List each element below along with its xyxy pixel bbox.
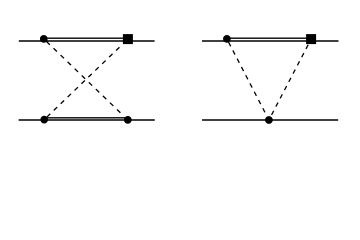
vertex dot: left diagram bottom-left [40, 116, 48, 124]
vertex square: left diagram top-right [123, 34, 133, 44]
vertex dot: left diagram top-left [40, 35, 48, 43]
dashed pion propagator: right diagram, square to bottom dot [272, 45, 309, 115]
vertex dot: left diagram bottom-right [124, 116, 132, 124]
wire: left diagram bottom nucleon line [19, 119, 155, 121]
wire: right diagram top nucleon line [202, 40, 339, 42]
vertex square: right diagram top-right [306, 34, 316, 44]
wire: left diagram bottom double-line (delta) companion segment [44, 117, 128, 119]
wire: left diagram top nucleon line [19, 40, 155, 42]
dashed pion propagator: left diagram, top-right square to bottom-left dot [47, 47, 120, 117]
wire: left diagram top double-line (delta) companion segment [44, 37, 128, 39]
vertex dot: right diagram top-left [223, 35, 231, 43]
wire: right diagram top double-line (delta) companion segment [227, 37, 311, 39]
vertex dot: right diagram bottom-center [265, 116, 273, 124]
wire: right diagram bottom nucleon line [202, 119, 338, 121]
dashed pion propagator: right diagram, top dot to bottom dot [229, 42, 265, 112]
dashed pion propagator: left diagram, top-left dot to bottom-right dot [46, 41, 120, 112]
